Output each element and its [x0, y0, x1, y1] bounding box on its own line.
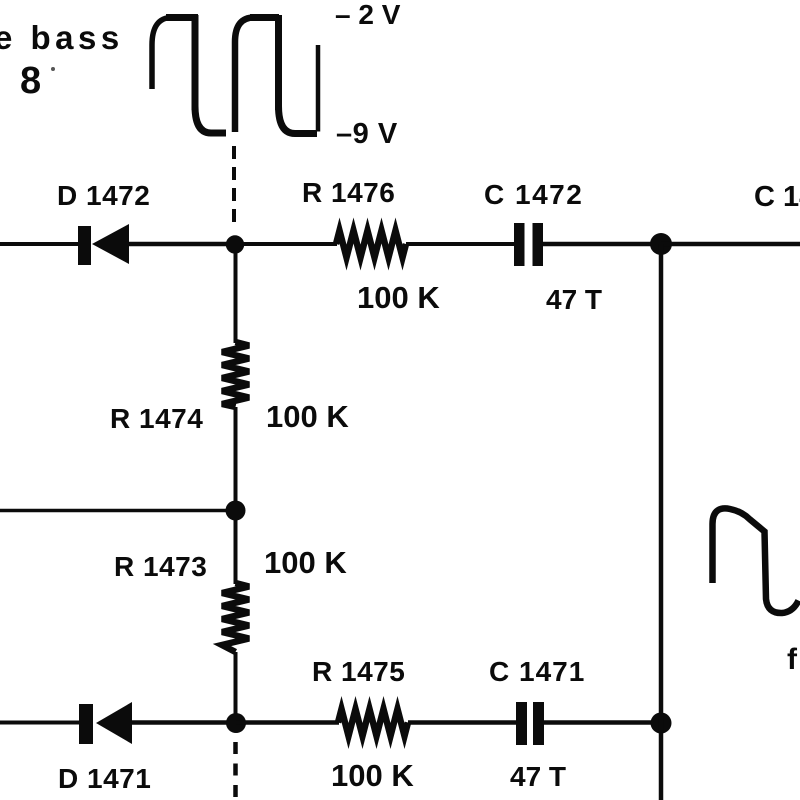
wire C1471 to node E	[544, 720, 661, 725]
resistor R1476	[336, 231, 406, 258]
node D junction	[226, 713, 246, 733]
svg-text:100 K: 100 K	[266, 399, 349, 434]
dashed wire from waveform to node A	[232, 146, 236, 227]
svg-text:47 T: 47 T	[546, 284, 602, 315]
capacitor C1471	[516, 702, 544, 745]
svg-text:R 1474: R 1474	[110, 403, 203, 434]
dashed wire below node D	[233, 742, 238, 800]
wire node A down to R1474	[234, 244, 238, 343]
wire diode to node A	[129, 242, 236, 247]
svg-text:100 K: 100 K	[357, 280, 440, 315]
svg-text:R 1473: R 1473	[114, 551, 207, 582]
node A junction	[226, 235, 244, 253]
capacitor C1472	[514, 223, 543, 266]
svg-text:D 1472: D 1472	[57, 180, 150, 211]
svg-text:R 1476: R 1476	[302, 177, 395, 208]
vertical wire node B to node E and below	[659, 244, 664, 800]
wire R1473 to node D	[234, 652, 238, 723]
svg-text:8: 8	[20, 60, 41, 102]
resistor R1475	[338, 709, 408, 736]
svg-text:e bass: e bass	[0, 19, 124, 56]
output waveform	[713, 508, 799, 613]
wire diode D1471 to node D	[132, 720, 236, 725]
svg-text:100 K: 100 K	[264, 545, 347, 580]
input waveform (square wave between -2V and -9V)	[152, 15, 318, 134]
resistor R1474	[222, 342, 249, 407]
wire node A to R1476	[235, 242, 337, 246]
svg-text:R 1475: R 1475	[312, 656, 405, 687]
wire middle rail from left edge	[0, 509, 235, 513]
svg-text:C 1472: C 1472	[754, 181, 800, 213]
svg-text:D 1471: D 1471	[58, 763, 151, 794]
wire R1475 to C1471	[408, 720, 517, 725]
wire node D to R1475	[236, 720, 339, 725]
wire node B to right edge	[661, 242, 800, 247]
svg-text:100 K: 100 K	[331, 758, 414, 793]
node B junction	[650, 233, 672, 255]
wire R1476 to C1472	[406, 242, 515, 246]
wire R1474 to node C	[234, 407, 238, 511]
wire top rail left segment	[0, 242, 80, 246]
diode D1471	[79, 702, 132, 744]
svg-text:C 1472: C 1472	[484, 179, 583, 210]
svg-text:f: f	[787, 643, 798, 676]
ink speck next to 8	[51, 67, 55, 71]
node C junction	[226, 501, 246, 521]
wire node C down to R1473	[234, 510, 238, 584]
svg-text:–9 V: –9 V	[336, 118, 398, 150]
node E junction	[651, 713, 672, 734]
wire bottom rail left segment	[0, 721, 80, 725]
resistor R1473	[222, 583, 249, 652]
svg-text:47 T: 47 T	[510, 761, 566, 792]
diode D1472	[78, 224, 129, 265]
svg-text:C 1471: C 1471	[489, 656, 585, 687]
svg-text:– 2 V: – 2 V	[335, 0, 401, 30]
wire C1472 to node B	[543, 242, 661, 247]
